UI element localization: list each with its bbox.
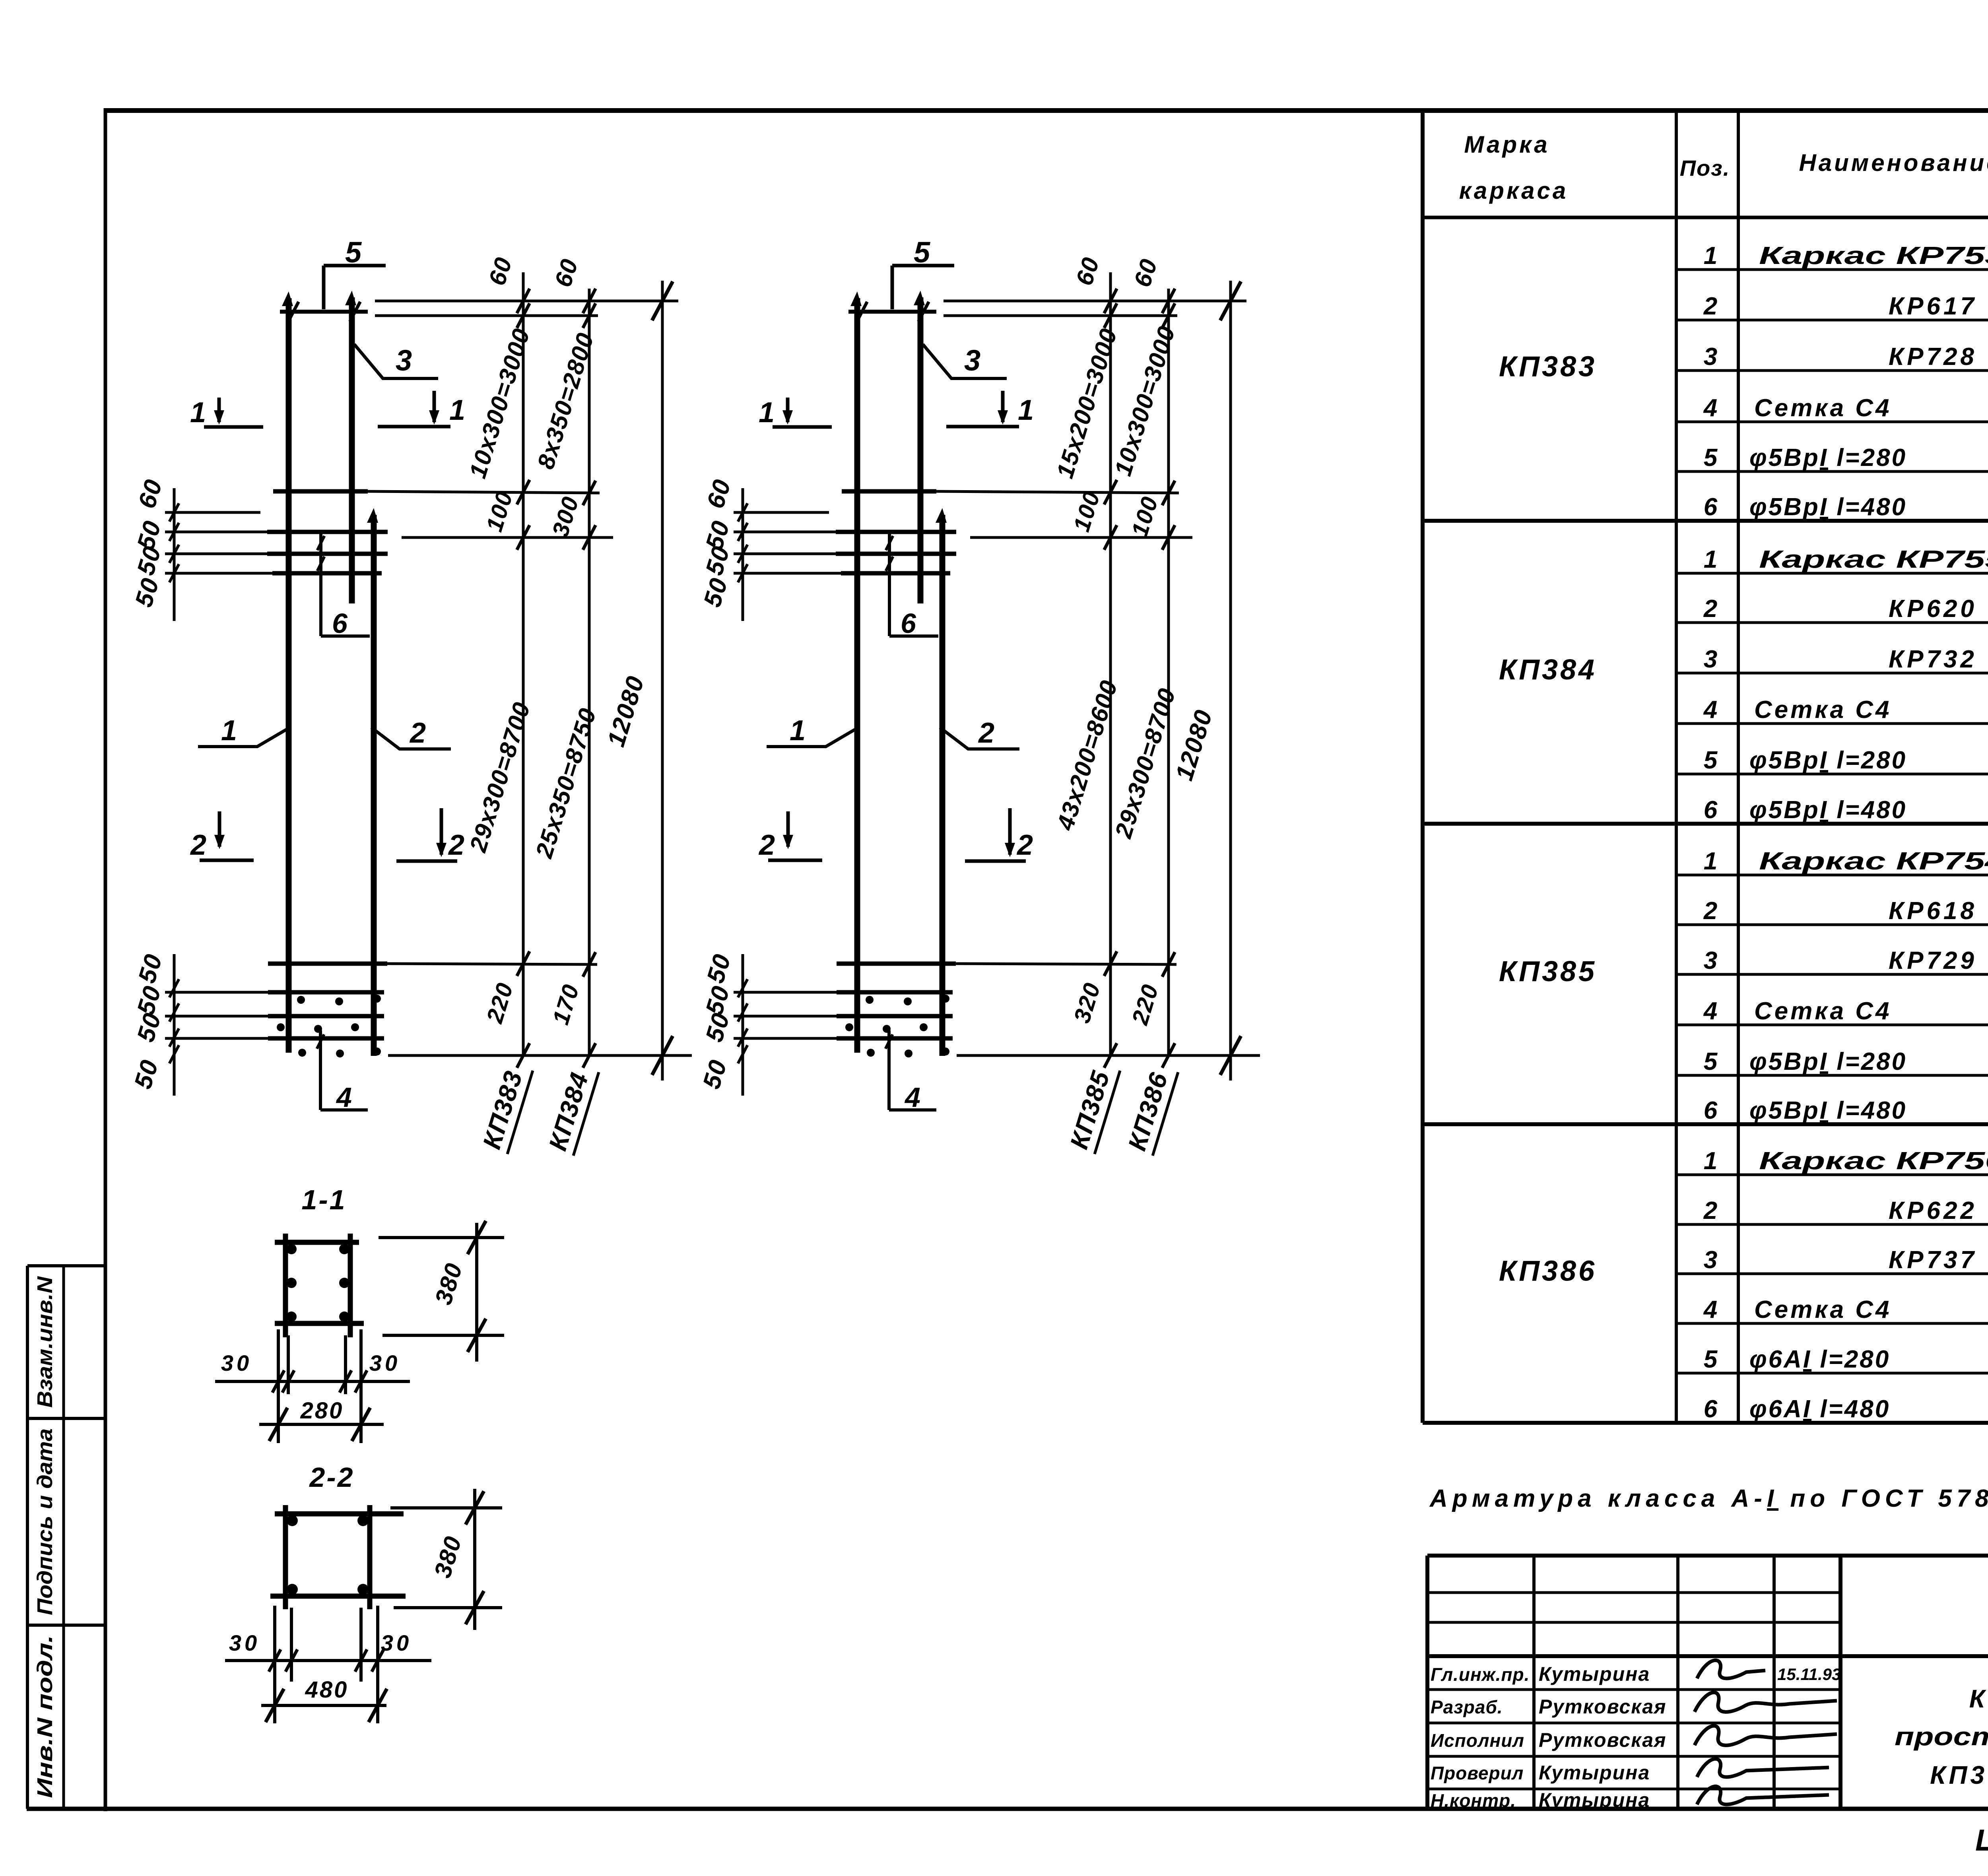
dimension line B (stirrup spacings) [1167, 289, 1170, 1057]
svg-text:5: 5 [345, 236, 362, 269]
svg-text:2-2: 2-2 [309, 1462, 354, 1493]
svg-text:φ5ВрI l=480: φ5ВрI l=480 [1749, 1097, 1907, 1124]
svg-text:Каркас КР754: Каркас КР754 [1759, 848, 1988, 875]
mid stirrup group: long stirrup [273, 489, 368, 494]
svg-text:КР728: КР728 [1889, 343, 1977, 371]
sheet frame bottom border [27, 1807, 1988, 1811]
dimension line A (stirrup spacings) [522, 272, 525, 1057]
signature scribble [1697, 1660, 1765, 1678]
section 1-1 corner bars [286, 1244, 297, 1254]
svg-text:Рутковская: Рутковская [1539, 1729, 1666, 1751]
svg-text:3: 3 [396, 344, 412, 377]
mid stirrup group: long stirrup [842, 489, 936, 494]
svg-text:КР729: КР729 [1889, 947, 1977, 974]
svg-text:Гл.инж.пр.: Гл.инж.пр. [1431, 1664, 1530, 1685]
svg-text:30: 30 [221, 1350, 252, 1375]
svg-text:2: 2 [1016, 829, 1033, 861]
section mark 2 (right) [440, 808, 443, 855]
upper dimension extension lines [944, 300, 1246, 303]
detail callout 5 bracket [892, 264, 954, 268]
rebar pos.1 (longitudinal bar), x=726 [286, 298, 292, 1053]
svg-text:Марка: Марка [1464, 131, 1549, 158]
svg-text:6: 6 [332, 608, 348, 639]
svg-text:φ5ВрI l=280: φ5ВрI l=280 [1749, 1048, 1907, 1075]
svg-text:1-1: 1-1 [301, 1184, 346, 1215]
rebar pos.2 (lower splice bar), x=940 [371, 515, 377, 1056]
section 2-2 height dim 380 [390, 1506, 502, 1509]
section mark 2 (left) [218, 811, 221, 847]
svg-text:1: 1 [221, 715, 237, 747]
section 1-1 width dims 30/280/30 [277, 1329, 280, 1443]
signature scribble [1697, 1786, 1829, 1804]
svg-text:15.11.93: 15.11.93 [1777, 1665, 1841, 1684]
svg-text:1: 1 [1018, 394, 1034, 426]
detail callout 4 bracket [319, 1030, 322, 1110]
svg-text:Поз.: Поз. [1680, 155, 1730, 180]
column top weld line [848, 310, 936, 314]
svg-text:КП383...КП386: КП383...КП386 [1930, 1761, 1988, 1789]
mid lower extension line [402, 536, 613, 539]
svg-text:3: 3 [1704, 646, 1717, 673]
section mark 2 (right) [1008, 808, 1012, 855]
svg-text:КП383: КП383 [1499, 351, 1597, 383]
svg-text:Каркас КР755: Каркас КР755 [1759, 546, 1988, 573]
svg-text:30: 30 [229, 1630, 260, 1655]
svg-text:φ5ВрI l=480: φ5ВрI l=480 [1749, 796, 1907, 824]
svg-text:30: 30 [381, 1630, 412, 1655]
margin stamp box borders [26, 1266, 29, 1809]
svg-text:4: 4 [1703, 394, 1717, 422]
svg-text:Сетка С4: Сетка С4 [1754, 394, 1892, 422]
svg-text:6: 6 [1704, 493, 1718, 521]
stirrup spacing dims (left, mid group) [742, 488, 744, 621]
section 2-2 width dims 30/480/30 [273, 1606, 276, 1723]
svg-text:φ5ВрI l=280: φ5ВрI l=280 [1749, 444, 1907, 471]
leader to bar 3 [354, 344, 438, 378]
stirrup spacing dims (left, bottom group) [742, 954, 744, 1096]
svg-text:5: 5 [1704, 1346, 1718, 1373]
svg-text:Рутковская: Рутковская [1539, 1696, 1666, 1718]
svg-text:6: 6 [1704, 796, 1718, 824]
title block outer border [1425, 1556, 1429, 1809]
table group separator lines [1423, 519, 1988, 523]
bottom stirrups [165, 991, 268, 994]
table header bottom line [1423, 216, 1988, 219]
svg-text:480: 480 [305, 1677, 349, 1703]
upper dimension extension lines [375, 300, 678, 303]
rebar pos.3 (upper splice bar), x=2315 [918, 297, 924, 603]
section 2-2 stirrup square [283, 1505, 288, 1609]
column top weld line [280, 310, 368, 314]
svg-text:КП384: КП384 [1499, 654, 1597, 686]
svg-text:280: 280 [300, 1398, 344, 1424]
svg-text:2: 2 [758, 829, 775, 861]
svg-text:φ5ВрI l=480: φ5ВрI l=480 [1749, 493, 1907, 521]
svg-text:1: 1 [449, 394, 465, 426]
svg-text:φ6АI l=280: φ6АI l=280 [1749, 1346, 1890, 1373]
dimension line C (overall 12080) [661, 281, 664, 1081]
bottom stirrups [734, 991, 837, 994]
leader to bar 1 [767, 729, 856, 747]
mid stirrups [165, 531, 267, 534]
svg-text:КР618: КР618 [1889, 897, 1977, 925]
svg-text:1: 1 [790, 715, 806, 747]
svg-text:1: 1 [1704, 242, 1717, 270]
title block horizontal lines [1427, 1591, 1840, 1594]
svg-text:3: 3 [1704, 947, 1717, 974]
svg-text:3: 3 [964, 344, 980, 377]
mid stirrup group: extension line (bar 2 top) [734, 511, 829, 514]
svg-text:КР622: КР622 [1889, 1197, 1977, 1224]
svg-text:30: 30 [369, 1350, 400, 1375]
svg-text:2: 2 [409, 717, 426, 749]
svg-text:Сетка С4: Сетка С4 [1754, 696, 1892, 724]
svg-text:каркаса: каркаса [1459, 177, 1568, 204]
svg-text:6: 6 [901, 608, 916, 639]
svg-text:КП385: КП385 [1499, 956, 1597, 987]
svg-text:5: 5 [1704, 747, 1718, 774]
svg-text:Исполнил: Исполнил [1431, 1730, 1524, 1751]
mid stirrups [734, 531, 836, 534]
leader to bar 2 [940, 728, 1019, 749]
svg-text:1: 1 [1704, 546, 1717, 573]
svg-text:Каркас: Каркас [1969, 1684, 1988, 1713]
svg-text:4: 4 [1703, 997, 1717, 1025]
svg-text:5: 5 [1704, 444, 1718, 471]
svg-text:Взам.инв.N: Взам.инв.N [33, 1276, 57, 1408]
svg-text:КР737: КР737 [1889, 1246, 1977, 1274]
svg-text:Кутырина: Кутырина [1539, 1762, 1650, 1784]
svg-text:6: 6 [1704, 1395, 1718, 1423]
svg-text:1: 1 [190, 397, 206, 429]
detail callout 6 bracket [319, 533, 322, 636]
rebar pos.3 (upper splice bar), x=885 [349, 297, 355, 603]
svg-text:Каркас КР756: Каркас КР756 [1759, 1147, 1988, 1175]
rebar pos.2 (lower splice bar), x=2370 [940, 515, 945, 1056]
svg-text:Арматура класса А-I по ГОС: Арматура класса А-I по ГОСТ 5781-82 , кл… [1429, 1485, 1988, 1512]
section mark 1 (left) [217, 398, 221, 422]
svg-text:Подпись и дата: Подпись и дата [33, 1428, 57, 1615]
svg-text:4: 4 [904, 1082, 920, 1113]
sheet frame top border [104, 108, 1988, 113]
svg-text:4: 4 [1703, 1296, 1717, 1323]
detail callout 6 bracket [888, 533, 891, 636]
signature scribble [1695, 1726, 1837, 1745]
leader to bar 1 [198, 729, 287, 747]
svg-text:1: 1 [1704, 848, 1717, 875]
signature scribble [1695, 1692, 1837, 1712]
svg-text:Проверил: Проверил [1431, 1763, 1524, 1783]
svg-text:КР617: КР617 [1889, 293, 1977, 320]
svg-text:КП386: КП386 [1499, 1255, 1597, 1287]
table bottom line [1423, 1421, 1988, 1425]
svg-text:Сетка С4: Сетка С4 [1754, 997, 1892, 1025]
dimension line C (overall 12080) [1229, 281, 1232, 1081]
section 2-2 corner bars [287, 1515, 298, 1526]
bottom stirrup group: long stirrup [268, 962, 387, 966]
rebar pos.1 (longitudinal bar), x=2156 [854, 298, 860, 1053]
svg-text:Наименование: Наименование [1799, 149, 1988, 176]
section 1-1 stirrup square [283, 1234, 288, 1337]
svg-text:1: 1 [759, 397, 775, 429]
detail callout 4 bracket [887, 1030, 891, 1110]
mid stirrup group: extension line (bar 2 top) [165, 511, 260, 514]
stirrup spacing dims (left, bottom group) [173, 954, 176, 1096]
section mark 1 (right) [433, 391, 436, 422]
bottom stirrup group: long stirrup [837, 962, 956, 966]
svg-text:Инв.N подл.: Инв.N подл. [33, 1635, 57, 1798]
signature scribble [1697, 1759, 1829, 1777]
svg-text:2: 2 [978, 717, 994, 749]
leader to bar 3 [923, 344, 1007, 378]
svg-text:1: 1 [1704, 1147, 1717, 1175]
bottom extension line (column end) [957, 1054, 1260, 1057]
svg-text:КР620: КР620 [1889, 595, 1977, 623]
svg-text:КР732: КР732 [1889, 646, 1977, 673]
table row lines [1676, 268, 1988, 271]
stirrup spacing dims (left, mid group) [173, 488, 176, 621]
svg-text:3: 3 [1704, 343, 1717, 371]
svg-text:φ5ВрI l=280: φ5ВрI l=280 [1749, 747, 1907, 774]
svg-text:6: 6 [1704, 1097, 1718, 1124]
mesh wire dots [297, 996, 305, 1004]
title block vertical lines [1532, 1556, 1536, 1809]
sheet frame left border [104, 108, 107, 1811]
svg-text:5: 5 [1704, 1048, 1718, 1075]
leader to bar 2 [371, 728, 451, 749]
svg-text:пространственный: пространственный [1895, 1722, 1988, 1751]
svg-text:Кутырина: Кутырина [1539, 1789, 1650, 1811]
mesh wire dots [866, 996, 874, 1004]
svg-text:Ц 00176-03: Ц 00176-03 [1975, 1824, 1988, 1857]
svg-text:3: 3 [1704, 1246, 1717, 1274]
section mark 1 (right) [1001, 391, 1005, 422]
svg-text:Кутырина: Кутырина [1539, 1663, 1650, 1685]
svg-text:2: 2 [448, 829, 464, 861]
section mark 1 (left) [786, 398, 790, 422]
specification table outer and column lines [1421, 111, 1425, 1423]
svg-text:4: 4 [1703, 696, 1717, 724]
dimension line B (stirrup spacings) [588, 289, 591, 1057]
svg-text:2: 2 [1703, 1197, 1717, 1224]
svg-text:Разраб.: Разраб. [1431, 1697, 1503, 1717]
svg-text:2: 2 [1703, 595, 1717, 623]
svg-text:2: 2 [1703, 897, 1717, 925]
svg-text:Н.контр.: Н.контр. [1431, 1790, 1516, 1811]
svg-text:2: 2 [190, 829, 206, 861]
mid lower extension line [970, 536, 1192, 539]
detail callout 5 bracket [324, 264, 386, 268]
svg-text:Каркас КР753: Каркас КР753 [1759, 242, 1988, 270]
svg-text:4: 4 [336, 1082, 352, 1113]
svg-text:5: 5 [914, 236, 931, 269]
dimension line A (stirrup spacings) [1109, 272, 1112, 1057]
section 1-1 height dim 380 [379, 1236, 504, 1239]
svg-text:Сетка С4: Сетка С4 [1754, 1296, 1892, 1323]
bottom extension line (column end) [388, 1054, 692, 1057]
svg-text:2: 2 [1703, 293, 1717, 320]
svg-text:φ6АI l=480: φ6АI l=480 [1749, 1395, 1890, 1423]
section mark 2 (left) [786, 811, 790, 847]
